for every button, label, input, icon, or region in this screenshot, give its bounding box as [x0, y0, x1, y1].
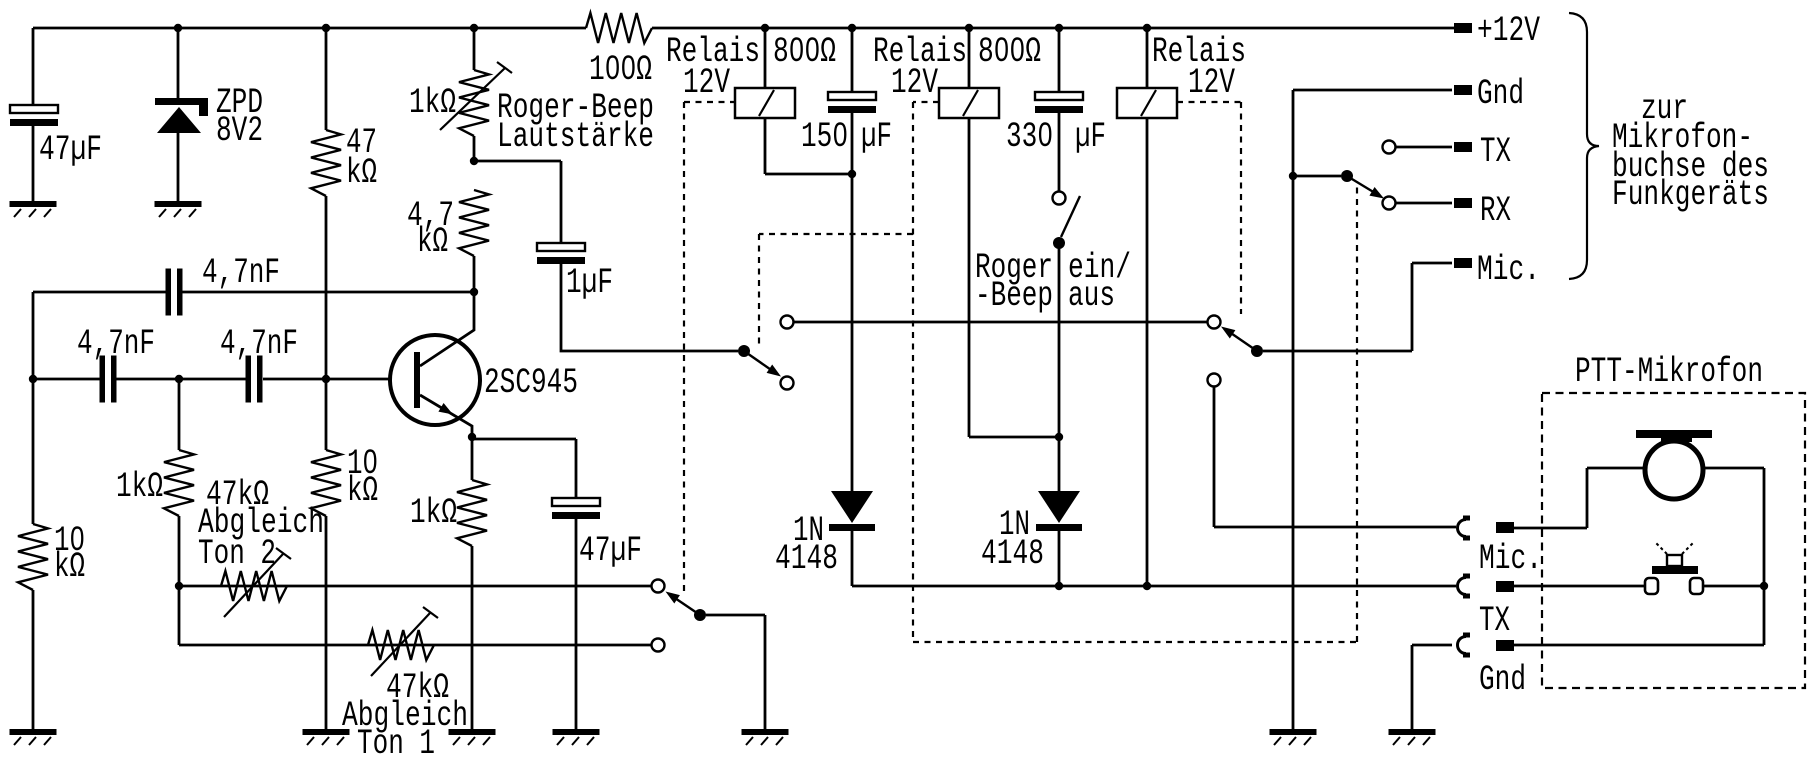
svg-text:4148: 4148 — [775, 539, 838, 579]
svg-text:4,7nF: 4,7nF — [202, 253, 280, 293]
svg-text:µF: µF — [1075, 117, 1106, 157]
svg-text:47µF: 47µF — [39, 130, 102, 170]
svg-text:TX: TX — [1479, 601, 1510, 641]
svg-text:8V2: 8V2 — [216, 111, 263, 151]
svg-text:+12V: +12V — [1477, 11, 1540, 51]
svg-text:12V: 12V — [891, 63, 938, 103]
svg-text:4,7nF: 4,7nF — [77, 324, 155, 364]
svg-text:-Beep: -Beep — [975, 276, 1053, 316]
svg-text:Funkgeräts: Funkgeräts — [1612, 175, 1769, 215]
svg-text:kΩ: kΩ — [346, 153, 377, 193]
svg-text:µF: µF — [861, 117, 892, 157]
svg-text:12V: 12V — [683, 63, 730, 103]
svg-text:aus: aus — [1068, 276, 1115, 316]
svg-text:Mic.: Mic. — [1479, 539, 1542, 579]
svg-text:Lautstärke: Lautstärke — [497, 117, 654, 157]
svg-text:kΩ: kΩ — [417, 222, 448, 262]
svg-text:RX: RX — [1480, 191, 1511, 231]
svg-text:1kΩ: 1kΩ — [116, 467, 163, 507]
svg-text:Gnd: Gnd — [1477, 74, 1524, 114]
svg-text:Ton 1: Ton 1 — [357, 724, 435, 762]
svg-text:800Ω: 800Ω — [978, 32, 1041, 72]
svg-text:kΩ: kΩ — [347, 471, 378, 511]
svg-text:1kΩ: 1kΩ — [410, 493, 457, 533]
svg-text:4,7nF: 4,7nF — [220, 324, 298, 364]
svg-text:12V: 12V — [1188, 63, 1235, 103]
svg-text:PTT-Mikrofon: PTT-Mikrofon — [1575, 352, 1763, 392]
svg-text:800Ω: 800Ω — [773, 32, 836, 72]
svg-text:Mic.: Mic. — [1477, 250, 1540, 290]
svg-text:Gnd: Gnd — [1479, 660, 1526, 700]
svg-text:100Ω: 100Ω — [589, 50, 652, 90]
svg-text:1kΩ: 1kΩ — [409, 83, 456, 123]
svg-text:1µF: 1µF — [566, 263, 613, 303]
svg-text:2SC945: 2SC945 — [484, 363, 578, 403]
svg-text:47µF: 47µF — [579, 531, 642, 571]
svg-text:4148: 4148 — [981, 534, 1044, 574]
svg-text:kΩ: kΩ — [54, 547, 85, 587]
svg-text:Ton 2: Ton 2 — [198, 534, 276, 574]
svg-text:TX: TX — [1480, 132, 1511, 172]
